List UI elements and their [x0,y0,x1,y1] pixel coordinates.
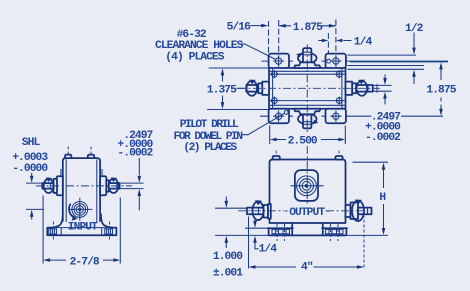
right shaft end tick [376,84,378,93]
node: hole center line top (net to 1.875 dim) [262,60,294,62]
right shaft rod (top view) [356,85,373,92]
input tower body [63,158,100,224]
2.500 dimension line [277,139,339,141]
5/16 extension line (ear left edge) [268,21,270,54]
foot bolt hidden lines (output) [277,224,338,241]
left shaft rod (output) [247,208,264,215]
svg-text:(2) PLACES: (2) PLACES [183,142,237,154]
output boss base (top) [294,62,321,68]
.2497 top-right shaft dim lines [373,85,392,91]
output shaft circles [297,176,317,196]
right shaft rotation arrow (output) [352,201,364,221]
gearbox body (plan) [269,68,346,109]
1.375 arrows [222,75,224,102]
right shaft step (input) [106,180,109,191]
clearance hole top-right [333,58,339,64]
ear tab top-right [326,54,346,69]
left shaft step (top view) [258,83,262,93]
1.875 / 1/4 extension line (right hole center) [335,20,337,54]
output boss stem (bottom) [303,115,311,129]
svg-text:1.875: 1.875 [426,84,456,96]
1/2 arrow down [413,33,415,49]
svg-text:INPUT: INPUT [68,221,98,233]
clearance hole top-left [275,58,281,64]
svg-text:OUTPUT: OUTPUT [289,207,325,219]
H dim: body top extended [353,161,389,163]
.2497 left arrows [138,158,140,175]
base bottom extended left [215,234,269,236]
side tapped hole upper-left [272,71,278,77]
stud hidden line right (output) [338,151,340,170]
right shaft rod (output) [358,208,372,215]
svg-text:-.0000: -.0000 [12,163,48,175]
svg-text:1/4: 1/4 [354,37,373,49]
svg-text:PILOT DRILL: PILOT DRILL [180,119,239,131]
center line dash after 1.375 [237,87,245,89]
ear tab bottom-right [326,109,346,124]
1.000 arrows [225,197,227,202]
left shaft rotation arrow (input) [44,179,54,193]
stud right (input) [88,155,94,159]
ear bottom extended [347,65,424,67]
input base outline [47,214,116,235]
svg-text:CLEARANCE HOLES: CLEARANCE HOLES [155,40,244,52]
node: hole center line bottom carrying .2497 label [260,115,293,117]
foot pad right (input) [105,229,113,234]
right shaft step (top view) [352,83,356,93]
H dim: base bottom extended [347,234,389,236]
left shaft rotation arrow (top view) [247,81,258,96]
right shaft rotation arrow (top view) [357,81,368,96]
SHL arrows [31,173,33,177]
stud left (output) [273,156,280,160]
SHL dim: input center extended [26,208,44,210]
1.375 left: body bottom extended [207,109,269,111]
clearance hole center extended (to 1.875R) [350,61,448,63]
svg-text:+.0003: +.0003 [12,152,48,164]
dowel pin leader [242,113,285,134]
side tapped hole lower-left [272,98,278,104]
side step right [101,169,103,176]
stud left (input) [65,155,71,159]
1/4 extension line (pilot hole) [327,33,329,54]
.2497 arrows (top view shaft) [384,75,386,79]
svg-text:4": 4" [301,262,313,274]
foot right (output) [322,223,347,235]
output body [270,160,346,224]
svg-text:2.500: 2.500 [288,136,318,148]
left shaft collar (top view) [262,82,269,95]
bearing cap left [57,176,63,195]
1/4 bottom arrows [254,219,256,222]
body top extended [347,68,424,70]
side step left [60,169,62,176]
svg-text:5/16: 5/16 [227,21,251,33]
wire: horizontal shaft center line of top view [238,87,380,89]
2-7/8 dimension line [50,259,113,261]
input circle crosshair [69,198,93,221]
foot pad left (input) [49,229,57,234]
svg-text:1.875: 1.875 [293,22,323,34]
ear tab top-left [269,54,289,69]
input base pad inner edges [61,228,101,235]
svg-text:1.000: 1.000 [213,251,243,263]
SHL dim: rod top extended [26,182,42,184]
1.000 dim: rod top extended [215,207,247,209]
1/2 right lines: ear top extended [347,54,416,56]
stud hidden center line right [90,147,92,167]
svg-text:1.375: 1.375 [207,84,237,96]
left shaft step (output) [268,204,271,219]
output boss plate [295,170,318,201]
tower inner wall lines [66,160,97,223]
svg-text:2-7/8: 2-7/8 [70,256,100,268]
wire: horizontal shaft center line input view [36,185,132,187]
foot bolt center line right [109,222,111,242]
foot bolt center line left [52,222,54,242]
.2497 left: rod edges extended [121,183,144,189]
stud hidden line left (output) [275,151,277,170]
clearance hole bottom-right [333,113,339,119]
pad top extended left [245,227,269,229]
4 inch extension lines [248,217,250,269]
5/16 leader arrow [251,25,262,27]
right shaft collar (top view) [346,82,353,95]
pilot hole bottom-left [284,111,288,115]
left shaft disc (input) [54,179,58,193]
clearance holes leader [240,44,276,60]
side tapped hole upper-right [336,71,342,77]
left shaft rotation arrow (output) [252,202,263,221]
4 inch dimension line [256,266,358,268]
1.375 left: body top extended [209,67,269,69]
input rotation arc [69,204,75,217]
H dimension arrows [383,169,385,188]
1.875 top dimension line [279,25,336,27]
output boss base (bottom) [294,109,321,115]
output circle crosshair [291,185,324,187]
OUTPUT label dashes [285,210,330,212]
svg-text:1/2: 1/2 [405,23,424,35]
right shaft collar (output) [351,203,359,220]
1/4 top dimension arrows [318,40,351,42]
stud hidden center line left [67,147,69,167]
body inner wall lines [269,68,346,109]
pilot hole top-right [327,59,331,63]
5/16 / 1.875 extension line (left hole center) [278,20,280,54]
input base ledge line [56,227,108,229]
ear tab bottom-left [269,109,289,124]
right shaft rod (input) [109,183,120,189]
1/2 opposing arrow up [413,76,415,84]
side tapped hole lower-right [336,98,342,104]
2-7/8 extension lines [43,196,120,264]
output base bottom [270,234,346,236]
svg-text:-.0002: -.0002 [117,148,153,160]
foot left (output) [268,223,293,235]
left shaft rod (top view) [246,85,258,92]
right shaft step (output) [346,205,351,217]
wire: vertical center line of top view / output view [306,45,308,133]
1.875 right dimension [440,69,442,109]
input shaft end circles [72,202,88,218]
left shaft rod (input) [42,183,53,189]
clearance hole bottom-left [275,113,281,119]
svg-text:SHL: SHL [22,137,41,149]
left shaft disc (output) [264,205,269,218]
svg-text:(4) PLACES: (4) PLACES [165,52,224,64]
output boss rotation ring (bottom) [298,114,317,124]
stud right (output) [335,156,342,160]
wire: horizontal shaft center line output view [238,210,284,212]
2.500 extension lines [270,126,346,145]
svg-text:1/4: 1/4 [259,243,278,255]
bearing cap right [100,176,106,195]
svg-text:-.0002: -.0002 [365,132,401,144]
output boss rotation ring (top) [298,53,317,63]
svg-text:±.001: ±.001 [213,268,243,280]
output boss stem (top) [303,48,311,62]
right shaft rotation arrow (input) [109,179,119,193]
